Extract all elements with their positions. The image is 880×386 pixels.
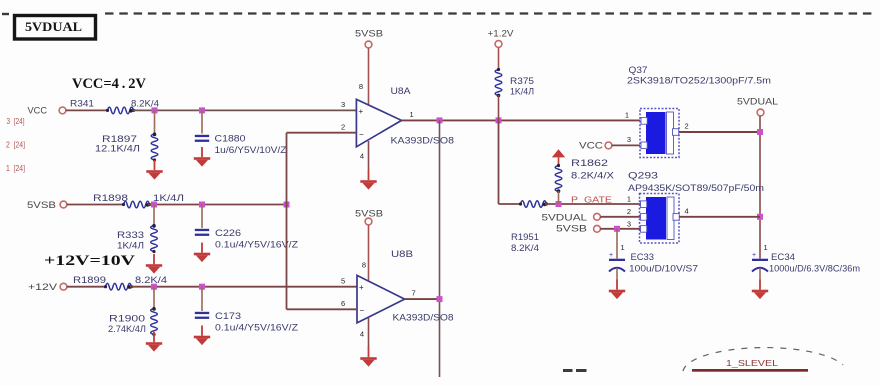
- svg-text:EC33: EC33: [631, 252, 655, 262]
- node junction: [284, 202, 290, 208]
- ground: [146, 332, 162, 352]
- op-amp U8A: [356, 99, 401, 147]
- svg-text:2: 2: [685, 122, 689, 131]
- svg-text:C173: C173: [215, 311, 241, 321]
- svg-text:1: 1: [621, 243, 625, 252]
- wire pin6 U8B: [287, 308, 358, 310]
- svg-text:100u/D/10V/S7: 100u/D/10V/S7: [629, 264, 698, 274]
- ground: [360, 347, 376, 367]
- svg-text:U8B: U8B: [391, 249, 413, 259]
- svg-text:8.2K/4: 8.2K/4: [511, 243, 539, 253]
- svg-text:5VDUAL: 5VDUAL: [737, 97, 778, 108]
- wire vertical 5VDUAL: [759, 116, 761, 259]
- svg-text:5: 5: [341, 277, 345, 286]
- svg-text:2.74K/4Л: 2.74K/4Л: [108, 324, 146, 334]
- svg-text:1: 1: [410, 110, 414, 119]
- svg-text:8.2K/4/X: 8.2K/4/X: [571, 171, 614, 181]
- wire Q37 pin3: [612, 144, 640, 146]
- wire to U8B pin5: [130, 286, 357, 288]
- wire pin4 U8B: [368, 317, 370, 347]
- op-amp U8B: [357, 275, 405, 323]
- svg-text:+: +: [752, 252, 756, 259]
- svg-text:+: +: [359, 107, 364, 116]
- title box 5VDUAL: [15, 16, 96, 40]
- svg-text:5VSB: 5VSB: [27, 200, 56, 211]
- ground: [360, 170, 376, 190]
- svg-text:U8A: U8A: [391, 86, 411, 96]
- node junction: [757, 129, 763, 135]
- wire: [498, 47, 500, 70]
- svg-text:8.2K/4: 8.2K/4: [131, 99, 159, 109]
- svg-text:1: 1: [627, 195, 631, 204]
- svg-text:VCC: VCC: [579, 141, 603, 152]
- dashed top border: [105, 12, 876, 14]
- node junction: [199, 202, 205, 208]
- wire Q293 pin3: [600, 228, 640, 230]
- wire +12V row: [67, 286, 107, 288]
- power arrow: [552, 149, 565, 157]
- resistor R333: [153, 205, 155, 226]
- svg-text:8.2K/4: 8.2K/4: [135, 275, 167, 285]
- node junction: [151, 284, 157, 290]
- svg-text:7: 7: [412, 289, 416, 298]
- ground: [194, 147, 210, 167]
- resistor R375: [495, 68, 502, 97]
- wire 5VSB row: [67, 204, 125, 206]
- svg-text:P_GATE: P_GATE: [571, 195, 612, 205]
- node junction: [556, 201, 562, 207]
- svg-text:1K/4Л: 1K/4Л: [510, 87, 534, 97]
- wire pin8 U8A: [368, 48, 370, 106]
- resistor R1951: [519, 201, 548, 208]
- svg-text:12.1K/4Л: 12.1K/4Л: [95, 144, 140, 154]
- svg-text:3: 3: [341, 100, 345, 109]
- wire to Q293 pin1: [545, 203, 640, 205]
- node junction: [437, 117, 443, 123]
- svg-text:5VSB: 5VSB: [355, 29, 383, 40]
- svg-text:VCC=4 . 2V: VCC=4 . 2V: [72, 76, 146, 92]
- svg-text:EC34: EC34: [771, 252, 795, 262]
- svg-text:0.1u/4/Y5V/16V/Z: 0.1u/4/Y5V/16V/Z: [215, 323, 299, 333]
- svg-text:R1897: R1897: [102, 134, 137, 144]
- svg-text:8: 8: [362, 261, 366, 270]
- ground: [194, 243, 210, 263]
- svg-text:−: −: [360, 306, 365, 315]
- node junction: [614, 226, 620, 232]
- wire Q293 pin4: [679, 216, 760, 218]
- svg-text:+12V: +12V: [28, 282, 58, 293]
- resistor R1900: [153, 287, 155, 309]
- svg-text:+: +: [609, 252, 613, 259]
- wire VCC row: [66, 109, 109, 111]
- transistor Q37: [640, 109, 679, 158]
- node junction: [199, 107, 205, 113]
- wire: [499, 203, 522, 205]
- wire pin8 U8B: [368, 225, 370, 282]
- svg-text:AP9435K/SOT89/507pF/50m: AP9435K/SOT89/507pF/50m: [628, 183, 764, 193]
- svg-text:1: 1: [764, 243, 768, 252]
- ground: [194, 326, 210, 346]
- ground: [609, 280, 625, 300]
- svg-text:2 [24]: 2 [24]: [6, 140, 25, 150]
- node junction: [151, 202, 157, 208]
- wire Q293 pin2: [600, 216, 640, 218]
- bottom marks: [563, 369, 573, 372]
- capacitor EC34: [752, 252, 768, 280]
- svg-text:2: 2: [341, 123, 345, 132]
- svg-text:Q293: Q293: [628, 171, 658, 181]
- wire to U8A pin3: [133, 109, 357, 111]
- svg-text:1_SLEVEL: 1_SLEVEL: [726, 358, 778, 368]
- svg-text:2SK3918/TO252/1300pF/7.5m: 2SK3918/TO252/1300pF/7.5m: [627, 76, 771, 86]
- wire: [498, 95, 500, 120]
- svg-text:KA393D/SO8: KA393D/SO8: [393, 313, 454, 323]
- svg-text:+12V=10V: +12V=10V: [44, 253, 135, 269]
- wire: [558, 191, 560, 204]
- svg-text:4: 4: [685, 207, 689, 216]
- svg-text:2: 2: [627, 207, 631, 216]
- resistor R1897: [154, 110, 156, 134]
- svg-text:1K/4Л: 1K/4Л: [117, 241, 144, 251]
- svg-text:6: 6: [341, 299, 345, 308]
- node junction: [757, 214, 763, 220]
- svg-text:3: 3: [627, 220, 631, 229]
- wire to corner: [148, 204, 287, 206]
- svg-text:Q37: Q37: [629, 65, 648, 75]
- wire vertical from U8A output: [439, 120, 441, 377]
- svg-text:5VDUAL: 5VDUAL: [25, 19, 82, 34]
- svg-text:1 [24]: 1 [24]: [6, 163, 25, 173]
- svg-text:+: +: [359, 283, 364, 292]
- svg-text:1u/6/Y5V/10V/Z: 1u/6/Y5V/10V/Z: [215, 145, 288, 155]
- node junction: [437, 296, 443, 302]
- svg-text:C1880: C1880: [215, 134, 246, 144]
- svg-text:1000u/D/6.3V/8C/36m: 1000u/D/6.3V/8C/36m: [769, 264, 860, 274]
- svg-text:R375: R375: [510, 76, 534, 86]
- svg-text:R1951: R1951: [511, 232, 539, 242]
- svg-text:R1899: R1899: [73, 275, 106, 285]
- svg-text:3 [24]: 3 [24]: [7, 116, 25, 126]
- ground: [752, 280, 768, 300]
- node junction: [496, 117, 502, 123]
- capacitor EC33: [609, 252, 625, 280]
- wire U8B output: [405, 298, 440, 300]
- svg-text:8: 8: [359, 82, 363, 91]
- svg-text:R333: R333: [117, 230, 144, 240]
- svg-text:1K/4Л: 1K/4Л: [153, 193, 184, 203]
- wire EC33: [616, 229, 618, 259]
- wire U8A output: [402, 119, 641, 121]
- svg-text:+1.2V: +1.2V: [488, 29, 515, 40]
- capacitor C226: [201, 205, 203, 229]
- svg-text:−: −: [359, 130, 364, 139]
- svg-text:4: 4: [360, 330, 364, 339]
- transistor Q293: [640, 194, 680, 244]
- dashed ellipse: [683, 348, 843, 371]
- capacitor C173: [201, 287, 203, 311]
- ground: [146, 160, 162, 180]
- node junction: [152, 107, 158, 113]
- wire vertical pin2 to pin6: [286, 133, 288, 310]
- svg-text:4: 4: [360, 152, 364, 161]
- resistor R1862: [555, 164, 562, 193]
- svg-text:R341: R341: [70, 99, 94, 109]
- wire Q37 pin2 to 5VDUAL: [679, 131, 760, 133]
- wire vertical to P_GATE row: [498, 120, 500, 204]
- wire pin4 U8A: [368, 141, 370, 171]
- svg-text:3: 3: [627, 135, 631, 144]
- svg-text:R1898: R1898: [93, 193, 128, 203]
- capacitor C1880: [201, 110, 203, 133]
- svg-text:C226: C226: [215, 228, 241, 238]
- svg-text:5VSB: 5VSB: [556, 224, 587, 235]
- wire pin2 U8A: [287, 132, 357, 134]
- svg-text:1: 1: [625, 111, 629, 120]
- svg-text:R1862: R1862: [571, 158, 608, 168]
- svg-text:5VDUAL: 5VDUAL: [542, 213, 588, 224]
- ground: [146, 254, 162, 274]
- svg-text:VCC: VCC: [28, 106, 48, 117]
- node junction: [199, 284, 205, 290]
- page border dash fragment: [2, 13, 9, 15]
- svg-text:KA393D/SO8: KA393D/SO8: [391, 136, 455, 146]
- svg-text:R1900: R1900: [109, 314, 145, 324]
